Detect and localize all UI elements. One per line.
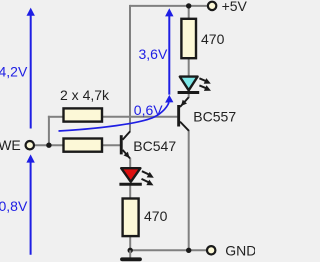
LED D1 (red) [121,168,140,182]
svg-text:3,6V: 3,6V [139,46,168,62]
transistor Q2 emitter [123,150,130,159]
svg-text:4,2V: 4,2V [0,64,28,80]
LED D2 cathode bar [178,91,200,94]
junction +5V/R1 [186,3,191,8]
wire Q2 emitter to D1 [129,158,131,169]
wire D1 cathode to R2 [129,186,131,199]
wire WE to R3 [34,144,63,146]
LED D1 cathode bar [119,183,141,186]
LED D1 light arrows [142,171,154,185]
terminal +5V [208,2,216,10]
transistor Q2 emitter arrow (NPN) [124,152,130,158]
terminal GND [207,246,215,254]
wire D2 cathode to Q1 emitter [188,93,190,98]
junction GND rail / ground [128,248,133,253]
svg-text:470: 470 [144,208,168,224]
junction WE/R4 [46,143,51,148]
svg-text:2 x 4,7k: 2 x 4,7k [60,87,110,103]
transistor Q1 emitter arrow (PNP) [181,100,187,106]
svg-text:0,8V: 0,8V [0,198,28,214]
wire R4 left lead [48,116,64,118]
wire Q1 collector down to GND rail [188,130,190,250]
resistor R4 4,7k (upper horizontal) [64,108,103,121]
svg-text:BC547: BC547 [133,138,176,154]
wire R1 top lead [188,6,190,19]
wire R1 bottom lead to D2 [188,59,190,77]
resistor R2 470 (bottom) [123,199,139,237]
terminal WE [26,141,34,149]
svg-text:WE: WE [0,137,21,153]
svg-text:+5V: +5V [222,0,248,14]
wire R3 to Q2 base [102,144,120,146]
LED D2 light arrows [199,78,211,91]
wire WE junction up to R4 [48,116,50,145]
transistor Q1 BC557 base bar [177,105,180,127]
transistor Q2 collector [123,131,131,140]
annotation arrow 4,2V [27,8,35,129]
resistor R1 470 (top right) [181,19,196,58]
svg-text:470: 470 [201,31,225,47]
wire left vertical +5V to Q1 collector [129,5,131,131]
svg-text:BC557: BC557 [193,109,236,125]
svg-text:GND: GND [225,242,255,258]
transistor Q1 emitter [180,97,189,107]
transistor Q1 collector [180,122,189,131]
junction GND rail / Q1 collector [186,248,191,253]
wire GND rail bottom [130,249,206,251]
annotation curved arrow 0,6V [59,95,174,131]
svg-text:0,6V: 0,6V [134,102,163,118]
wire R2 bottom lead [129,236,131,251]
annotation arrow 3,6V [165,8,173,94]
wire +5V rail top [130,5,207,7]
resistor R3 4,7k (lower horizontal) [64,139,103,152]
LED D2 (cyan) [180,77,198,91]
annotation arrow 0,8V [26,154,34,254]
ground [122,250,140,259]
transistor Q2 BC547 base bar [120,135,123,154]
wire R4 to Q1 base [102,116,177,118]
